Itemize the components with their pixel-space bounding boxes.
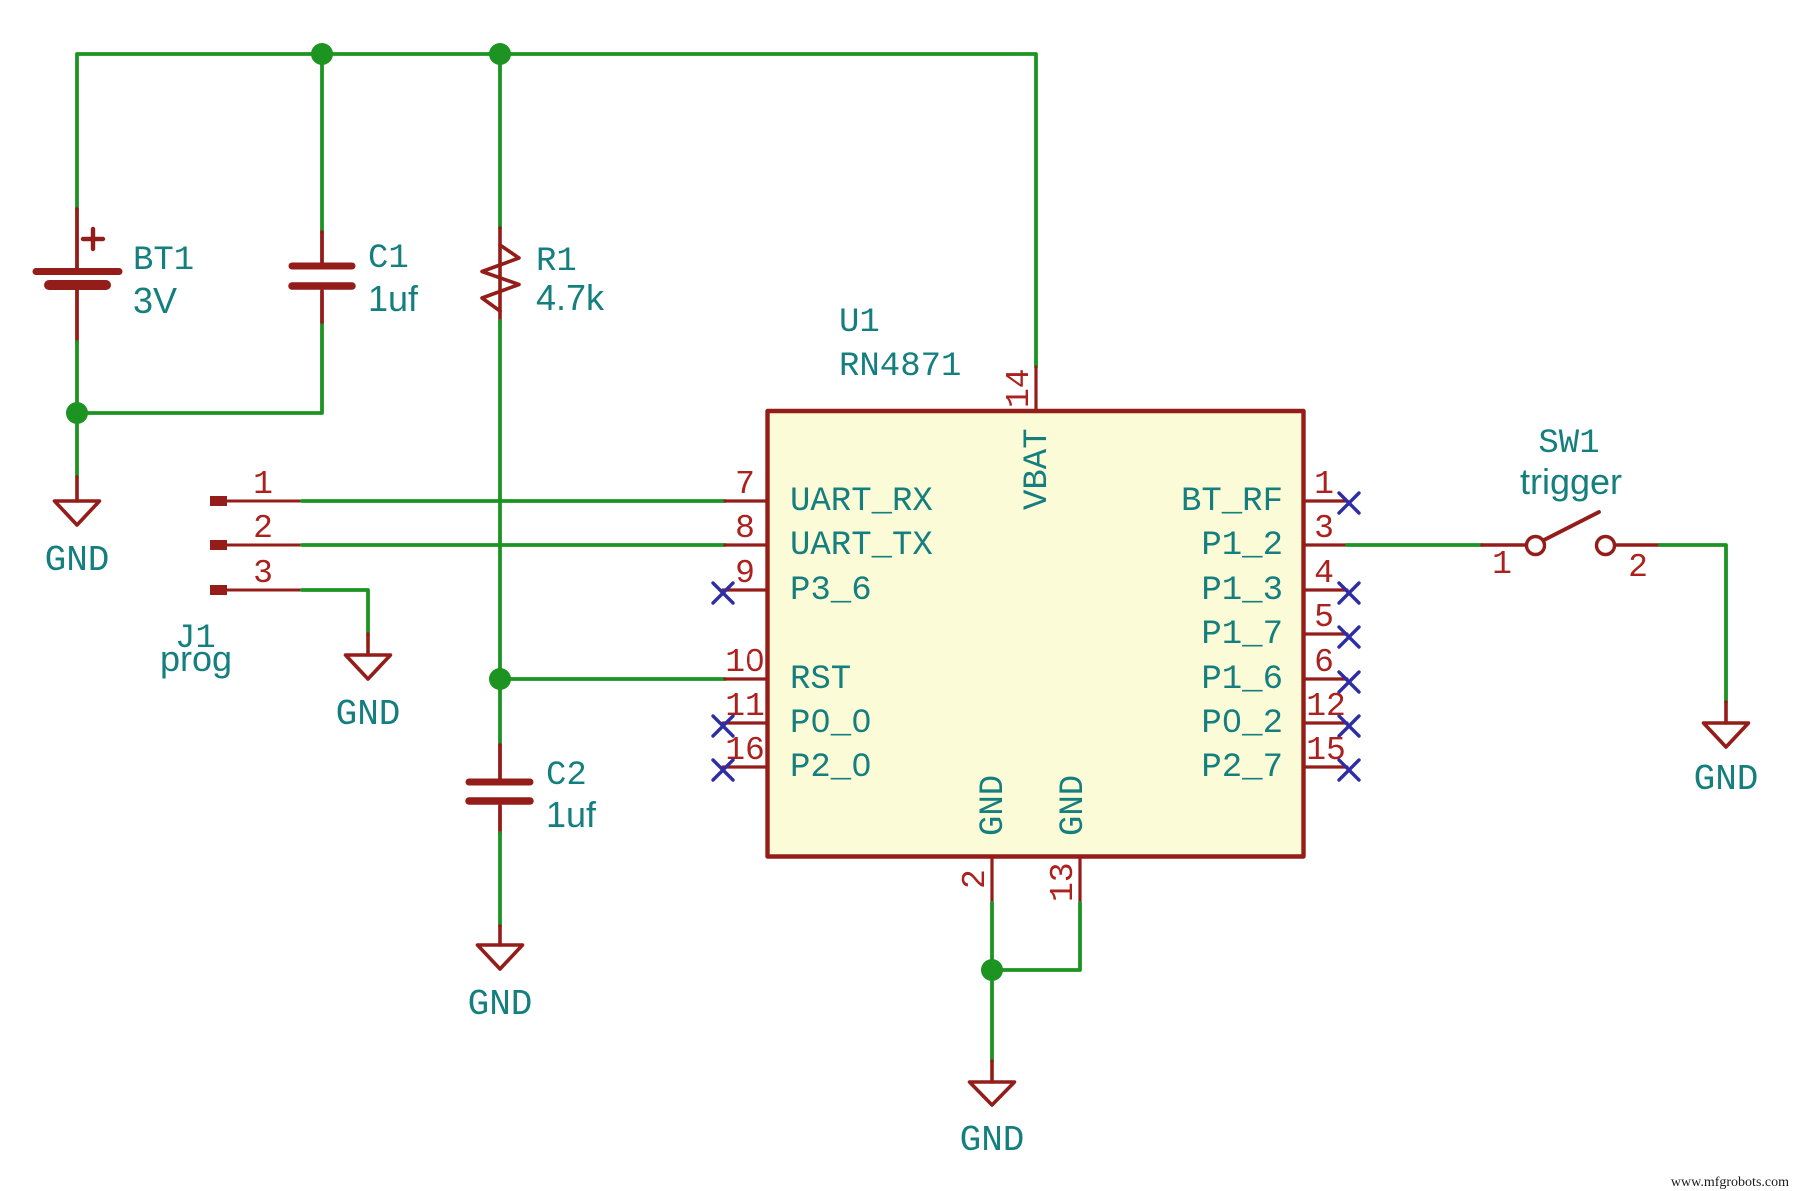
- svg-text:SW1: SW1: [1538, 425, 1599, 463]
- no-connect pin 1: [1339, 493, 1359, 513]
- svg-text:2: 2: [957, 869, 994, 889]
- svg-text:8: 8: [735, 510, 755, 547]
- svg-text:P2_7: P2_7: [1201, 749, 1283, 787]
- svg-text:1: 1: [253, 466, 273, 503]
- wire switch to gnd: [1660, 545, 1726, 702]
- capacitor C2: [469, 745, 530, 833]
- ground C2: [478, 926, 523, 969]
- wire J1 pin2 to U1 pin8: [302, 543, 725, 547]
- svg-text:P1_6: P1_6: [1201, 661, 1283, 699]
- resistor R1: [482, 228, 519, 321]
- svg-text:U1: U1: [839, 304, 880, 342]
- svg-text:1: 1: [1492, 546, 1512, 583]
- pin 7 UART_RX: [725, 499, 767, 502]
- wire battery gnd drop: [75, 413, 79, 477]
- wire R1 bottom to RST node: [498, 321, 502, 679]
- svg-text:4.7k: 4.7k: [536, 277, 605, 318]
- svg-text:P0_2: P0_2: [1201, 705, 1283, 743]
- svg-text:P1_2: P1_2: [1201, 527, 1283, 565]
- svg-text:trigger: trigger: [1520, 461, 1622, 502]
- svg-text:prog: prog: [160, 638, 232, 679]
- svg-text:BT1: BT1: [133, 242, 194, 280]
- ground U1: [970, 1061, 1015, 1105]
- wire J1 pin1 to U1 pin7: [302, 499, 725, 503]
- junction gnd node: [981, 959, 1003, 981]
- svg-text:12: 12: [1306, 688, 1346, 725]
- svg-text:GND: GND: [1694, 759, 1759, 800]
- wire battery bottom / C1 bottom: [77, 322, 322, 413]
- battery BT1: [36, 209, 119, 342]
- pin 3 P1_2: [1304, 543, 1347, 546]
- svg-text:GND: GND: [960, 1120, 1025, 1161]
- svg-text:14: 14: [1001, 368, 1038, 408]
- svg-text:UART_RX: UART_RX: [790, 483, 933, 521]
- svg-text:GND: GND: [468, 984, 533, 1025]
- ground battery: [55, 477, 100, 525]
- svg-text:1: 1: [1314, 466, 1334, 503]
- junction top rail / R1: [489, 43, 511, 65]
- svg-text:7: 7: [735, 466, 755, 503]
- capacitor C1: [292, 232, 352, 322]
- no-connect pin 12: [1339, 716, 1359, 736]
- junction RST node: [489, 668, 511, 690]
- wire U1 pin2 gnd: [990, 903, 994, 970]
- pin 12 P0_2: [1304, 721, 1347, 724]
- ground J1: [346, 634, 391, 679]
- svg-text:3: 3: [1314, 510, 1334, 547]
- svg-text:P3_6: P3_6: [790, 572, 872, 610]
- svg-text:2: 2: [1628, 549, 1648, 586]
- no-connect pin 6: [1339, 672, 1359, 692]
- no-connect pin 4: [1339, 583, 1359, 603]
- wire U1 pin3 to switch: [1347, 543, 1482, 547]
- pin 8 UART_TX: [725, 543, 767, 546]
- wire J1 pin3 to gnd: [302, 590, 368, 634]
- no-connect pin 16: [713, 760, 733, 780]
- pin 11 P0_0: [723, 721, 767, 724]
- svg-text:GND: GND: [45, 540, 110, 581]
- connector J1 pin 2: [210, 540, 302, 550]
- no-connect pin 11: [713, 716, 733, 736]
- svg-text:UART_TX: UART_TX: [790, 527, 933, 565]
- ground SW1: [1704, 702, 1749, 747]
- svg-text:6: 6: [1314, 644, 1334, 681]
- svg-text:P1_7: P1_7: [1201, 616, 1283, 654]
- no-connect pin 9: [713, 583, 733, 603]
- wire RST: [500, 677, 725, 681]
- svg-text:1uf: 1uf: [368, 278, 419, 319]
- junction top rail / C1: [311, 43, 333, 65]
- pin 1 BT_RF: [1304, 499, 1347, 502]
- wire C2 top drop: [498, 679, 502, 745]
- svg-text:C2: C2: [546, 757, 587, 795]
- wire top power rail: [77, 54, 1036, 367]
- wire C2 bottom: [498, 833, 502, 926]
- svg-text:1uf: 1uf: [546, 794, 597, 835]
- switch SW1: [1482, 512, 1660, 555]
- pin 10 RST: [725, 677, 767, 680]
- svg-text:9: 9: [735, 555, 755, 592]
- svg-text:GND: GND: [336, 694, 401, 735]
- svg-text:15: 15: [1306, 732, 1346, 769]
- pin 15 P2_7: [1304, 765, 1347, 768]
- wire gnd node drop: [990, 970, 994, 1061]
- connector J1 pin 1: [210, 496, 302, 506]
- IC U1 body: [768, 411, 1304, 857]
- svg-text:P1_3: P1_3: [1201, 572, 1283, 610]
- svg-text:R1: R1: [536, 243, 577, 281]
- svg-text:3: 3: [253, 555, 273, 592]
- wire R1 top drop: [498, 54, 502, 228]
- svg-text:13: 13: [1045, 862, 1082, 902]
- pin 14 VBAT stub: [1034, 367, 1037, 411]
- svg-text:RN4871: RN4871: [839, 348, 961, 386]
- pin 4 P1_3: [1304, 588, 1347, 591]
- svg-text:GND: GND: [1055, 775, 1093, 836]
- pin 5 P1_7: [1304, 632, 1347, 635]
- svg-text:BT_RF: BT_RF: [1181, 483, 1283, 521]
- svg-text:2: 2: [253, 510, 273, 547]
- no-connect pin 5: [1339, 627, 1359, 647]
- svg-text:GND: GND: [975, 775, 1013, 836]
- pin 9 P3_6: [723, 588, 767, 591]
- svg-text:VBAT: VBAT: [1019, 428, 1057, 510]
- pin 6 P1_6: [1304, 677, 1347, 680]
- junction battery gnd node: [66, 402, 88, 424]
- svg-text:5: 5: [1314, 599, 1334, 636]
- pin 16 P2_0: [723, 765, 767, 768]
- svg-text:4: 4: [1314, 555, 1334, 592]
- wire C1 top drop: [320, 54, 324, 232]
- connector J1 pin 3: [210, 585, 302, 595]
- svg-text:C1: C1: [368, 240, 409, 278]
- pin 2 GND stub: [990, 857, 993, 903]
- wire U1 pin13 gnd: [992, 903, 1080, 970]
- svg-text:3V: 3V: [133, 280, 177, 321]
- no-connect pin 15: [1339, 760, 1359, 780]
- pin 13 GND stub: [1078, 857, 1081, 903]
- svg-text:RST: RST: [790, 661, 851, 699]
- svg-text:www.mfgrobots.com: www.mfgrobots.com: [1671, 1175, 1789, 1190]
